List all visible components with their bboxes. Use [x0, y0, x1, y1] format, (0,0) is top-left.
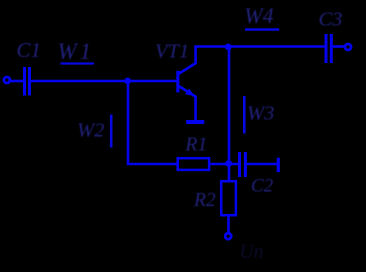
supply terminal circle	[225, 233, 231, 239]
wire R1 to node B	[210, 163, 238, 166]
svg-text:C3: C3	[319, 9, 343, 31]
emitter arrow	[185, 89, 194, 96]
top wire collector to C3	[194, 45, 324, 48]
svg-text:W4: W4	[244, 3, 273, 28]
wire input terminal to C1	[10, 80, 24, 83]
wire C3 to output terminal	[333, 45, 344, 48]
underline of label W1	[61, 62, 95, 64]
svg-text:C1: C1	[17, 38, 42, 62]
bar of label W2	[110, 115, 113, 148]
node B junction dot	[225, 160, 232, 167]
wire C2 to ground bar	[247, 163, 277, 166]
node A junction dot	[124, 78, 131, 85]
underline of label W4	[245, 28, 279, 30]
wire R2 to supply terminal	[227, 216, 230, 233]
resistor R2	[221, 181, 236, 215]
capacitor C1	[25, 67, 30, 96]
svg-text:VT1: VT1	[155, 41, 189, 63]
transistor VT1 base bar	[176, 71, 179, 93]
svg-text:C2: C2	[251, 176, 274, 197]
wire left vertical from node A down	[127, 81, 130, 164]
ground bar at emitter	[186, 120, 204, 124]
transistor VT1 emitter	[179, 86, 196, 121]
input terminal circle	[4, 77, 10, 83]
ground bar at C2	[277, 158, 280, 173]
svg-text:W3: W3	[247, 103, 274, 125]
wire bottom horizontal to R1	[127, 163, 177, 166]
resistor R1	[178, 158, 209, 170]
capacitor C2	[240, 152, 246, 177]
svg-text:R1: R1	[184, 133, 207, 155]
output terminal circle	[345, 44, 351, 50]
svg-text:W1: W1	[58, 39, 95, 64]
wire C1 to base of VT1	[31, 80, 177, 83]
node C junction dot	[225, 44, 232, 51]
svg-text:R2: R2	[193, 190, 216, 211]
capacitor C3	[326, 34, 331, 63]
bar of label W3	[243, 96, 246, 134]
wire right vertical node C to node B	[228, 47, 231, 181]
svg-text:Uп: Uп	[240, 242, 264, 263]
transistor VT1 collector	[179, 47, 196, 74]
svg-text:W2: W2	[77, 120, 104, 142]
